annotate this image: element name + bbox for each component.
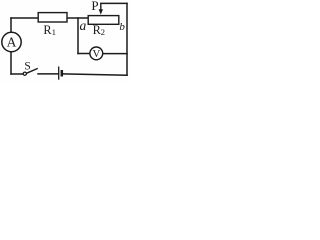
wire switch to battery [38, 73, 58, 75]
ammeter A circle [2, 32, 21, 51]
wire battery to right rail [63, 74, 127, 75]
battery short thick plate [61, 70, 64, 77]
wiper arrow P stem [100, 3, 102, 9]
wire junction vertical to voltmeter [77, 18, 79, 54]
svg-text:1: 1 [52, 27, 56, 37]
wire top-right wiper feed [101, 2, 127, 4]
switch S lever [26, 68, 37, 73]
voltmeter V circle [90, 47, 103, 60]
wire right rail [126, 3, 128, 75]
wire R1 to R2 [67, 17, 88, 19]
svg-text:V: V [93, 48, 101, 60]
battery long plate [58, 67, 60, 80]
wire bottom left to switch [11, 73, 23, 75]
rheostat R2 [88, 16, 119, 25]
resistor R1 [38, 13, 67, 22]
wiper arrowhead [99, 9, 103, 14]
wire voltmeter left [78, 53, 90, 55]
svg-text:P: P [91, 0, 98, 13]
wire left rail lower [10, 52, 12, 74]
svg-text:A: A [7, 35, 17, 50]
switch S pivot circle [23, 72, 26, 75]
wire voltmeter right [103, 53, 127, 55]
svg-text:a: a [80, 18, 87, 33]
wire top-left horizontal [11, 17, 38, 19]
svg-text:2: 2 [101, 27, 105, 37]
wire left rail upper [10, 18, 12, 33]
svg-text:b: b [119, 21, 125, 33]
svg-text:S: S [24, 60, 30, 72]
